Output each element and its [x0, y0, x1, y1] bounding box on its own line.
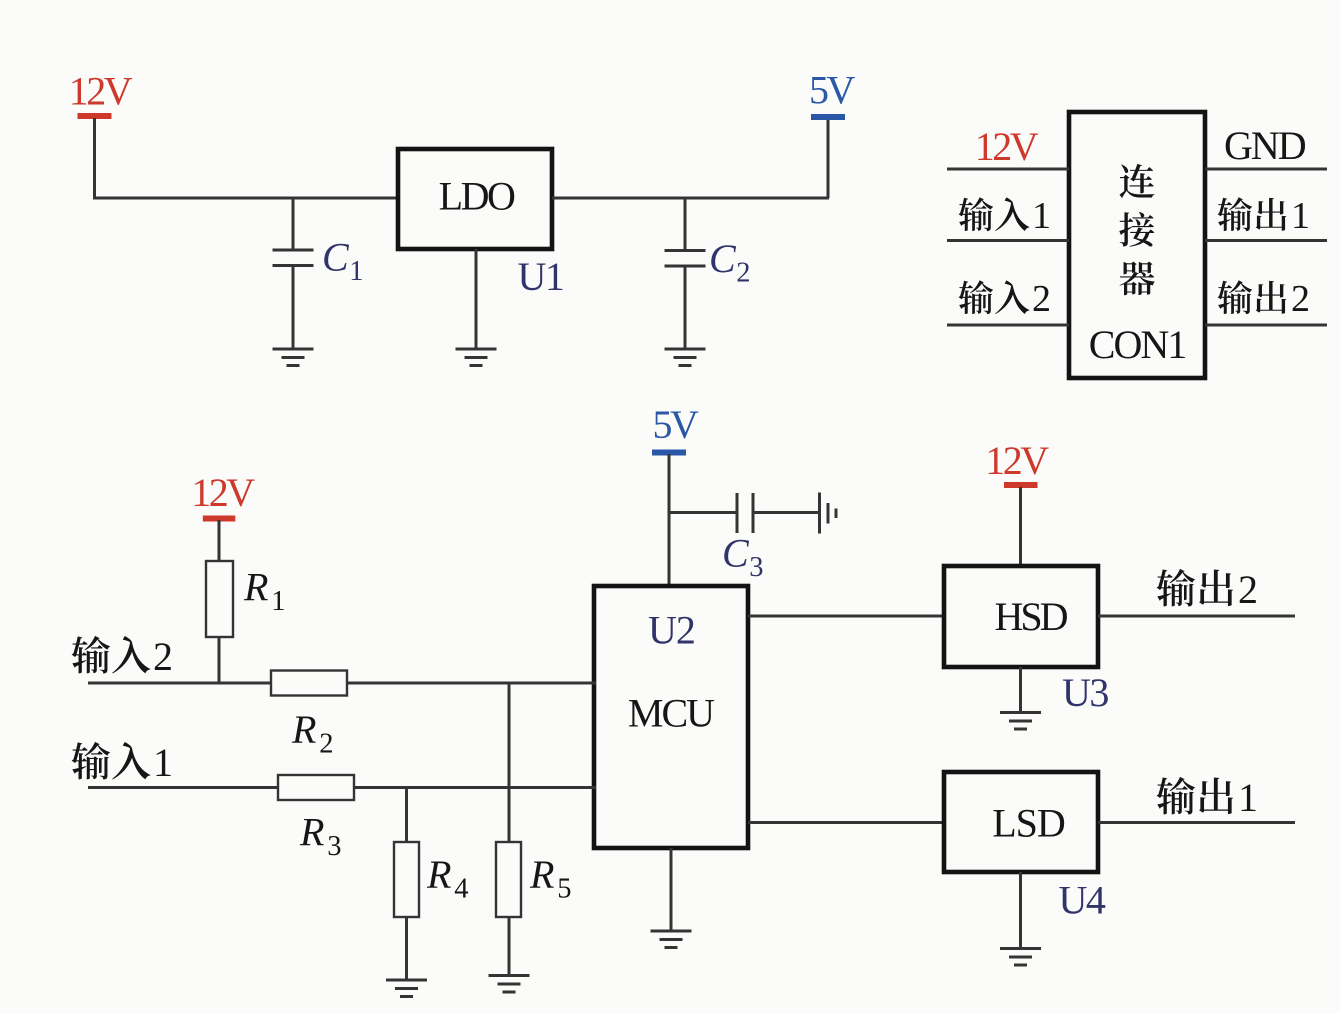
svg-text:LSD: LSD	[992, 801, 1065, 846]
capacitor C3	[737, 493, 819, 533]
svg-text:HSD: HSD	[994, 594, 1067, 639]
label R2	[291, 707, 333, 760]
wire LSD output	[1098, 821, 1295, 824]
svg-text:2: 2	[1291, 278, 1310, 320]
label R4	[426, 852, 468, 905]
ground below C2	[665, 349, 706, 366]
svg-text:U2: U2	[648, 608, 695, 653]
wire 5V to MCU VCC	[668, 454, 671, 588]
pin wire CON1 left 1 (12V)	[947, 168, 1069, 171]
wire input1 net	[88, 786, 596, 789]
svg-text:2: 2	[319, 729, 333, 760]
wire LDO output to 5V rail	[552, 120, 829, 198]
svg-text:U4: U4	[1059, 878, 1106, 923]
wire input2 net	[88, 682, 596, 685]
svg-text:2: 2	[1032, 278, 1051, 320]
wire R1 to input2 net	[218, 637, 221, 685]
ground below LDO	[456, 349, 497, 366]
IC U2 MCU	[594, 586, 748, 848]
svg-text:3: 3	[327, 831, 341, 862]
wire MCU to HSD	[748, 615, 946, 618]
svg-text:2: 2	[736, 258, 750, 289]
svg-text:1: 1	[271, 586, 285, 617]
svg-text:R: R	[529, 852, 554, 897]
wire MCU to LSD	[748, 821, 946, 824]
svg-text:C: C	[709, 236, 737, 281]
wire input2 net to R5	[508, 682, 511, 843]
connector CON1 box	[1069, 112, 1205, 378]
svg-text:12V: 12V	[191, 470, 255, 515]
label C2	[709, 236, 750, 289]
power rail 12V (HSD)	[985, 438, 1049, 488]
wire HSD ground pin	[1019, 667, 1022, 713]
capacitor C2	[665, 197, 706, 350]
svg-text:5: 5	[557, 874, 571, 905]
resistor R1	[206, 561, 233, 637]
label 输入2 (net)	[72, 634, 173, 679]
power rail 12V (top-left)	[69, 69, 133, 120]
svg-text:R: R	[426, 852, 451, 897]
wire 12V to LDO input	[93, 118, 399, 200]
label 输出2 (output)	[1157, 567, 1258, 612]
wire 5V branch to C3	[668, 511, 738, 514]
svg-text:MCU: MCU	[628, 691, 715, 736]
IC U1 LDO	[398, 149, 552, 249]
ground below C1	[273, 349, 314, 366]
pin wire CON1 right 2 (output1)	[1205, 239, 1327, 242]
svg-text:C: C	[722, 531, 750, 576]
svg-text:12V: 12V	[985, 438, 1049, 483]
pin wire CON1 right 1 (GND)	[1205, 168, 1327, 171]
label C3	[722, 531, 763, 584]
label R5	[529, 852, 571, 905]
wire R4 to ground	[405, 917, 408, 981]
wire 12V to R1	[218, 520, 221, 562]
resistor R2	[271, 671, 347, 696]
label 输出1 (CON1)	[1218, 195, 1310, 237]
label 输入1 (net)	[72, 740, 173, 785]
power rail 12V (R1)	[191, 470, 255, 522]
svg-text:2: 2	[1238, 567, 1258, 612]
label 输入2	[959, 278, 1051, 320]
svg-text:1: 1	[153, 740, 173, 785]
svg-text:5V: 5V	[653, 402, 700, 447]
label R3	[299, 810, 341, 863]
svg-text:GND: GND	[1224, 123, 1306, 168]
label 输出2 (CON1)	[1218, 278, 1310, 320]
ground below HSD	[1000, 713, 1041, 730]
resistor R4	[394, 842, 419, 917]
svg-text:1: 1	[1032, 195, 1051, 237]
label 输入1	[959, 195, 1051, 237]
svg-text:12V: 12V	[975, 124, 1039, 169]
label R1	[243, 565, 285, 618]
svg-text:1: 1	[349, 256, 363, 287]
svg-text:LDO: LDO	[439, 174, 515, 219]
ground below R5	[489, 976, 530, 993]
svg-text:3: 3	[749, 552, 763, 583]
IC U3 HSD	[944, 566, 1098, 667]
svg-text:12V: 12V	[69, 69, 133, 114]
capacitor C1	[273, 197, 314, 350]
ground (C3, rotated)	[820, 493, 837, 534]
label 连接器 (vertical)	[1119, 164, 1154, 295]
svg-text:R: R	[299, 810, 324, 855]
svg-text:4: 4	[454, 874, 468, 905]
pin wire CON1 left 3 (input2)	[947, 324, 1069, 327]
svg-text:1: 1	[1238, 775, 1258, 820]
resistor R5	[496, 842, 521, 917]
svg-text:C: C	[322, 235, 350, 280]
wire 12V to HSD	[1019, 487, 1022, 568]
resistor R3	[278, 775, 354, 800]
svg-text:R: R	[291, 707, 316, 752]
ground below MCU	[651, 931, 692, 948]
svg-text:U1: U1	[518, 254, 564, 299]
svg-text:2: 2	[153, 634, 173, 679]
wire input1 net to R4	[405, 786, 408, 843]
power rail 5V (MCU)	[652, 402, 699, 456]
svg-text:U3: U3	[1062, 670, 1108, 715]
wire HSD output	[1098, 615, 1295, 618]
wire R5 to ground	[508, 917, 511, 976]
pin wire CON1 left 2 (input1)	[947, 239, 1069, 242]
wire LSD ground pin	[1019, 872, 1022, 949]
ground below R4	[386, 980, 427, 997]
svg-text:5V: 5V	[809, 68, 856, 113]
svg-text:1: 1	[1291, 195, 1310, 237]
wire MCU ground pin	[670, 848, 673, 932]
IC U4 LSD	[944, 772, 1098, 872]
svg-text:CON1: CON1	[1089, 322, 1185, 367]
wire LDO ground pin	[475, 249, 478, 350]
pin wire CON1 right 3 (output2)	[1205, 324, 1327, 327]
power rail 5V (top)	[809, 68, 856, 121]
ground below LSD	[1000, 949, 1041, 966]
label C1	[322, 235, 363, 288]
label 输出1 (output)	[1157, 775, 1258, 820]
svg-text:R: R	[243, 565, 268, 610]
